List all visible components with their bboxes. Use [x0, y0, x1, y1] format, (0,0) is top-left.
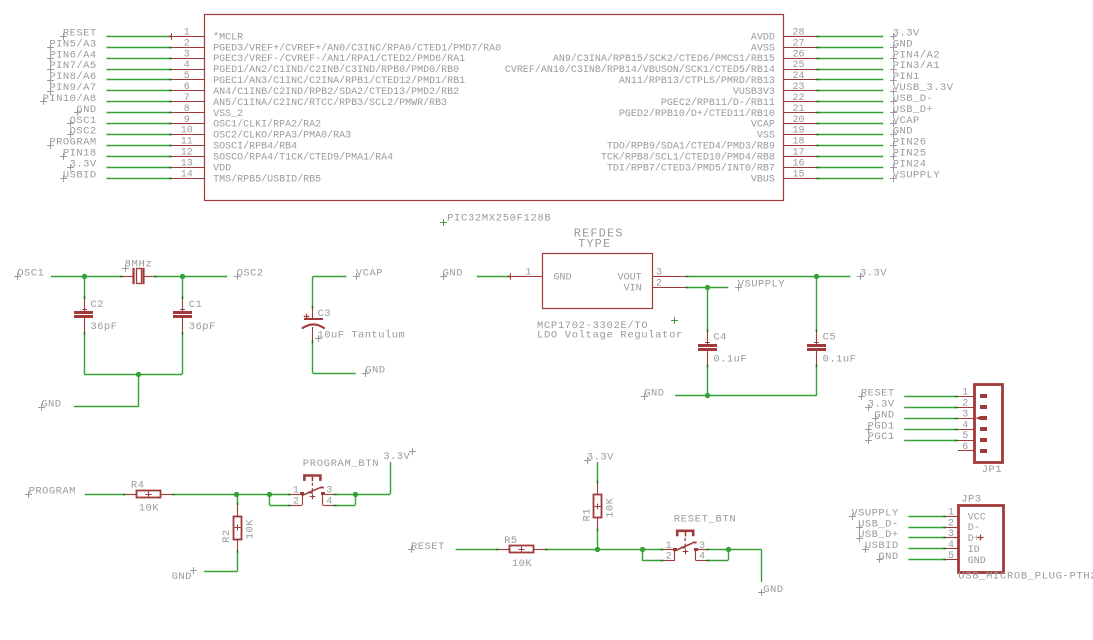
- svg-text:GND: GND: [968, 556, 986, 567]
- svg-text:C5: C5: [823, 332, 837, 344]
- regulator U2 pin 2 VIN: [653, 287, 686, 289]
- svg-text:LDO Voltage Regulator: LDO Voltage Regulator: [537, 329, 683, 341]
- ground GND label (C3): [362, 370, 369, 377]
- U1 pin 4 (PGED1/AN2/C1IND/C2INB/C3IND/RPB0/PMD0/RB0): [172, 69, 205, 71]
- svg-text:AN4/C1INB/C2IND/RPB2/SDA2/CTED: AN4/C1INB/C2IND/RPB2/SDA2/CTED13/PMD2/RB…: [213, 86, 459, 98]
- node VCAP label: [890, 120, 897, 127]
- svg-text:3: 3: [948, 529, 954, 540]
- wire net USB_D+ to JP3 pin 3: [908, 537, 946, 539]
- wire gnd branch down-left: [138, 374, 140, 407]
- svg-text:26: 26: [792, 49, 804, 60]
- U1 pin 17 (TCK/RPB8/SCL1/CTED10/PMD4/RB8): [783, 156, 816, 158]
- node GND label (JP3): [876, 556, 883, 563]
- U1 pin 2 (PGED3/VREF+/CVREF+/AN0/C3INC/RPA0/CTED1/PMD7/RA0): [172, 47, 205, 49]
- svg-text:AVDD: AVDD: [751, 32, 775, 43]
- svg-text:OSC2: OSC2: [237, 268, 264, 280]
- capacitor C3 value: [315, 335, 322, 342]
- wire net USB_D- to U1 pin 22: [816, 101, 883, 103]
- svg-text:36pF: 36pF: [189, 321, 216, 333]
- wire R1 down to junction: [597, 529, 599, 550]
- junction PROGRAM/R2: [234, 492, 239, 497]
- wire net USB_D+ to U1 pin 21: [816, 112, 883, 114]
- U1 pin 11 (SOSCI/RPB4/RB4): [172, 145, 205, 147]
- svg-text:1: 1: [962, 387, 968, 398]
- svg-text:RESET: RESET: [411, 541, 445, 553]
- svg-text:TMS/RPB5/USBID/RB5: TMS/RPB5/USBID/RB5: [213, 173, 321, 185]
- svg-text:VSUPPLY: VSUPPLY: [893, 169, 941, 181]
- connector JP3 D+ origin cross: [978, 535, 984, 541]
- svg-text:TCK/RPB8/SCL1/CTED10/PMD4/RB8: TCK/RPB8/SCL1/CTED10/PMD4/RB8: [601, 151, 775, 163]
- svg-text:PROGRAM: PROGRAM: [29, 486, 76, 498]
- U1 pin 18 (TDO/RPB9/SDA1/CTED4/PMD3/RB9): [783, 145, 816, 147]
- svg-text:10K: 10K: [512, 558, 533, 570]
- svg-text:17: 17: [792, 148, 804, 159]
- regulator U2 pin 1 GND: [510, 276, 542, 278]
- svg-text:R5: R5: [504, 535, 518, 547]
- U1 pin 26 (AN9/C3INA/RPB15/SCK2/CTED6/PMCS1/RB15): [783, 58, 816, 60]
- svg-text:10: 10: [181, 126, 193, 137]
- wire GND to regulator pin 1: [477, 276, 510, 278]
- wire net GND to U1 pin 8: [106, 112, 171, 114]
- svg-text:C4: C4: [713, 332, 727, 344]
- svg-text:20: 20: [792, 115, 804, 126]
- svg-text:TDI/RPB7/CTED3/PMD5/INT0/RB7: TDI/RPB7/CTED3/PMD5/INT0/RB7: [607, 162, 775, 174]
- crystal Q1 8MHz: [123, 276, 134, 278]
- switch RESET_BTN pin 3: [696, 549, 707, 551]
- wire R5 to junction: [545, 549, 641, 551]
- node VSUPPLY label: [890, 175, 897, 182]
- svg-text:VDD: VDD: [213, 163, 231, 174]
- svg-text:10uF Tantulum: 10uF Tantulum: [318, 330, 406, 342]
- svg-text:PGED1/AN2/C1IND/C2INB/C3IND/RP: PGED1/AN2/C1IND/C2INB/C3IND/RPB0/PMD0/RB…: [213, 64, 459, 76]
- wire PROGRAM_BTN pin2 loop: [269, 494, 290, 496]
- svg-text:VCAP: VCAP: [356, 268, 383, 280]
- wire net USBID to U1 pin 14: [106, 178, 171, 180]
- wire gnd rail under crystal caps: [84, 374, 182, 376]
- switch PROGRAM_BTN pin 4: [323, 505, 334, 507]
- svg-text:JP3: JP3: [961, 494, 981, 506]
- svg-text:21: 21: [792, 104, 804, 115]
- op-amp U1 PIC32MX250F128B body: [205, 15, 784, 201]
- wire btn right to 3.3V riser: [355, 494, 390, 496]
- svg-text:5: 5: [962, 431, 968, 442]
- svg-text:R1: R1: [581, 508, 593, 522]
- junction VOUT/C5: [814, 274, 819, 279]
- svg-text:10K: 10K: [605, 497, 617, 518]
- svg-text:CVREF/AN10/C3INB/RPB14/VBUSON/: CVREF/AN10/C3INB/RPB14/VBUSON/SCK1/CTED5…: [505, 64, 775, 76]
- connector JP3 pin 4 (ID): [946, 548, 958, 550]
- svg-text:AN11/RPB13/CTPLS/PMRD/RB13: AN11/RPB13/CTPLS/PMRD/RB13: [619, 75, 775, 87]
- svg-text:PIC32MX250F128B: PIC32MX250F128B: [447, 213, 551, 225]
- wire net VCAP to U1 pin 20: [816, 123, 883, 125]
- wire RESET_BTN pin2 loop: [642, 549, 663, 551]
- svg-text:TDO/RPB9/SDA1/CTED4/PMD3/RB9: TDO/RPB9/SDA1/CTED4/PMD3/RB9: [607, 141, 775, 153]
- node 3.3V label: [890, 33, 897, 40]
- svg-text:16: 16: [792, 158, 804, 169]
- connector JP3 pin 1 (VCC): [946, 516, 958, 518]
- wire net OSC1 to U1 pin 9: [106, 123, 171, 125]
- U1 pin 19 (VSS): [783, 134, 816, 136]
- svg-text:VCAP: VCAP: [751, 120, 775, 131]
- ground GND label (crystal): [38, 404, 45, 411]
- node OSC1 label: [67, 120, 74, 127]
- svg-text:3.3V: 3.3V: [383, 451, 410, 463]
- svg-text:PGEC2/RPB11/D-/RB11: PGEC2/RPB11/D-/RB11: [661, 97, 775, 109]
- svg-text:PGEC3/VREF-/CVREF-/AN1/RPA1/CT: PGEC3/VREF-/CVREF-/AN1/RPA1/CTED2/PMD6/R…: [213, 53, 465, 65]
- wire C4 down to gnd rail: [707, 365, 709, 396]
- U1 pin 24 (AN11/RPB13/CTPLS/PMRD/RB13): [783, 79, 816, 81]
- U1 pin 6 (AN4/C1INB/C2IND/RPB2/SDA2/CTED13/PMD2/RB2): [172, 90, 205, 92]
- op-amp U2 MCP1702 body: [543, 254, 653, 309]
- node 3.3V label (R1): [584, 457, 591, 464]
- svg-text:2: 2: [962, 398, 968, 409]
- capacitor C1 36pF: [173, 311, 192, 314]
- wire net GND to U1 pin 27: [816, 47, 883, 49]
- wire net VSUPPLY to U1 pin 15: [816, 178, 883, 180]
- svg-text:0.1uF: 0.1uF: [823, 354, 857, 366]
- wire net PIN7/A5 to U1 pin 4: [106, 69, 171, 71]
- svg-text:36pF: 36pF: [90, 321, 117, 333]
- connector JP1 pin 2: [958, 407, 974, 409]
- svg-text:2: 2: [293, 496, 299, 507]
- svg-text:VUSB3V3: VUSB3V3: [733, 87, 775, 98]
- connector JP3 pin 2 (D-): [946, 527, 958, 529]
- U1 pin 13 (VDD): [172, 167, 205, 169]
- U1 pin 16 (TDI/RPB7/CTED3/PMD5/INT0/RB7): [783, 167, 816, 169]
- svg-text:PROGRAM_BTN: PROGRAM_BTN: [303, 458, 379, 470]
- wire OSC2 down to C1: [182, 276, 184, 299]
- U1 pin 8 (VSS_2): [172, 112, 205, 114]
- U1 pin 15 (VBUS): [783, 178, 816, 180]
- connector JP1 pin 1: [958, 396, 974, 398]
- svg-text:11: 11: [181, 137, 193, 148]
- U1 pin 28 (AVDD): [783, 36, 816, 38]
- node RESET label: [408, 546, 415, 553]
- wire R2 down to GND: [237, 550, 239, 572]
- wire net 3.3V to JP1 pin 2: [904, 407, 958, 409]
- svg-text:USBID: USBID: [63, 169, 97, 181]
- U1 pin 20 (VCAP): [783, 123, 816, 125]
- switch PROGRAM_BTN pin 1: [291, 494, 303, 496]
- node PIN6/A4 label: [47, 55, 54, 62]
- connector JP1 pin 4: [958, 429, 974, 431]
- svg-text:27: 27: [792, 38, 804, 49]
- svg-text:R4: R4: [131, 480, 145, 492]
- wire net 3.3V to U1 pin 28: [816, 36, 883, 38]
- node GND label: [890, 44, 897, 51]
- wire net PIN6/A4 to U1 pin 3: [106, 58, 171, 60]
- wire crystal to OSC2/C1: [154, 276, 227, 278]
- node VCAP label: [353, 273, 360, 280]
- node PGC1 label (JP1): [865, 437, 872, 444]
- wire RESET to R5: [456, 549, 499, 551]
- svg-text:C2: C2: [90, 299, 104, 311]
- node PIN4/A2 label: [890, 55, 897, 62]
- node USB_D+ label: [890, 109, 897, 116]
- connector JP1 pin 3: [958, 418, 974, 420]
- U1 pin 22 (PGEC2/RPB11/D-/RB11): [783, 101, 816, 103]
- svg-text:6: 6: [962, 442, 968, 453]
- wire net GND to U1 pin 19: [816, 134, 883, 136]
- node GND label: [74, 109, 81, 116]
- U1 pin 21 (PGED2/RPB10/D+/CTED11/RB10): [783, 112, 816, 114]
- wire net GND to JP3 pin 5: [908, 559, 946, 561]
- svg-text:RESET_BTN: RESET_BTN: [674, 513, 737, 525]
- node PIN5/A3 label: [47, 44, 54, 51]
- regulator U2 origin cross: [671, 317, 678, 324]
- switch RESET_BTN: [677, 531, 693, 536]
- U1 pin 25 (CVREF/AN10/C3INB/RPB14/VBUSON/SCK1/CTED5/RB14): [783, 69, 816, 71]
- resistor R5 10K: [499, 549, 510, 551]
- svg-text:4: 4: [326, 496, 332, 507]
- svg-text:1: 1: [525, 267, 531, 278]
- wire net PIN18 to U1 pin 12: [106, 156, 171, 158]
- node PGD1 label (JP1): [865, 426, 872, 433]
- wire PROGRAM to R4: [85, 494, 126, 496]
- capacitor C3 polarized 10uF Tantulum: [312, 309, 314, 320]
- svg-text:15: 15: [792, 169, 804, 180]
- wire net PIN3/A1 to U1 pin 25: [816, 69, 883, 71]
- svg-text:0.1uF: 0.1uF: [713, 354, 747, 366]
- svg-text:2: 2: [666, 552, 672, 563]
- node RESET label (JP1): [858, 393, 865, 400]
- node VSUPPLY label (VIN): [735, 284, 742, 291]
- U1 pin 12 (SOSCO/RPA4/T1CK/CTED9/PMA1/RA4): [172, 156, 205, 158]
- svg-text:VSS: VSS: [757, 131, 775, 142]
- wire C3 to GND: [312, 341, 314, 374]
- U1 value PIC32MX250F128B: [440, 219, 447, 226]
- svg-text:VIN: VIN: [624, 283, 642, 294]
- svg-text:3: 3: [962, 409, 968, 420]
- node USB_D+ label (JP3): [856, 535, 863, 542]
- wire net OSC2 to U1 pin 10: [106, 134, 171, 136]
- switch PROGRAM_BTN pin 2: [291, 505, 303, 507]
- svg-text:OSC1: OSC1: [17, 268, 44, 280]
- svg-text:5: 5: [948, 551, 954, 562]
- svg-text:4: 4: [699, 552, 705, 563]
- junction RESET_BTN left: [640, 547, 645, 552]
- U1 pin 1 connection cross: [168, 33, 174, 39]
- svg-text:10K: 10K: [139, 503, 160, 515]
- svg-text:18: 18: [792, 137, 804, 148]
- resistor R2 10K: [237, 505, 239, 516]
- svg-text:5: 5: [184, 71, 190, 82]
- switch PROGRAM_BTN: [304, 476, 320, 481]
- wire net VSUPPLY to JP3 pin 1: [908, 516, 946, 518]
- svg-text:PGED2/RPB10/D+/CTED11/RB10: PGED2/RPB10/D+/CTED11/RB10: [619, 108, 775, 120]
- svg-text:1: 1: [948, 507, 954, 518]
- node GND label: [890, 131, 897, 138]
- svg-text:GND: GND: [443, 268, 463, 280]
- wire C1 down to gnd rail: [182, 332, 184, 374]
- svg-text:19: 19: [792, 126, 804, 137]
- svg-text:GND: GND: [365, 365, 385, 377]
- svg-text:OSC1/CLKI/RPA2/RA2: OSC1/CLKI/RPA2/RA2: [213, 119, 321, 131]
- node PIN10/A8 label: [40, 98, 47, 105]
- node 3.3V label: [67, 164, 74, 171]
- node 3.3V label (program): [409, 448, 416, 455]
- U1 pin 14 (TMS/RPB5/USBID/RB5): [172, 178, 205, 180]
- svg-text:12: 12: [181, 148, 193, 159]
- wire btn right to GND drop: [728, 549, 761, 551]
- svg-text:GND: GND: [878, 551, 898, 563]
- connector JP1 pin 6: [958, 450, 974, 452]
- node VSUPPLY label (JP3): [849, 513, 856, 520]
- node PROGRAM label: [47, 142, 54, 149]
- U1 pin 23 (VUSB3V3): [783, 90, 816, 92]
- regulator U2 pin 3 VOUT: [653, 276, 686, 278]
- svg-text:VCC: VCC: [968, 512, 986, 523]
- svg-text:3: 3: [326, 486, 332, 497]
- node PIN18 label: [60, 153, 67, 160]
- svg-text:ID: ID: [968, 545, 980, 556]
- wire 3.3V down to R1: [597, 462, 599, 484]
- wire OSC1 down to C2: [84, 276, 86, 299]
- node OSC1 label: [14, 273, 21, 280]
- svg-text:25: 25: [792, 60, 804, 71]
- svg-text:JP1: JP1: [982, 464, 1002, 476]
- svg-text:GND: GND: [763, 584, 783, 596]
- svg-text:*MCLR: *MCLR: [213, 31, 243, 43]
- junction C2/crystal: [82, 274, 87, 279]
- svg-text:10K: 10K: [244, 519, 256, 540]
- wire VIN to VSUPPLY: [686, 287, 729, 289]
- svg-text:3: 3: [184, 49, 190, 60]
- wire net 3.3V to U1 pin 13: [106, 167, 171, 169]
- svg-text:USB_MICROB_PLUG-PTH2: USB_MICROB_PLUG-PTH2: [958, 570, 1093, 582]
- node USBID label (JP3): [862, 546, 869, 553]
- wire net PIN8/A6 to U1 pin 5: [106, 79, 171, 81]
- crystal value 8MHz: [122, 265, 129, 272]
- svg-text:D-: D-: [968, 523, 980, 534]
- svg-text:OSC2/CLKO/RPA3/PMA0/RA3: OSC2/CLKO/RPA3/PMA0/RA3: [213, 130, 351, 142]
- svg-text:VOUT: VOUT: [618, 272, 642, 283]
- wire R4 to junction: [172, 494, 273, 496]
- svg-text:7: 7: [184, 93, 190, 104]
- node USBID label: [60, 175, 67, 182]
- junction gnd rail C4: [705, 393, 710, 398]
- node PIN3/A1 label: [890, 66, 897, 73]
- svg-text:1: 1: [184, 27, 190, 38]
- switch RESET_BTN pin 1: [663, 549, 675, 551]
- node 3.3V label (JP1): [865, 404, 872, 411]
- junction PROGRAM_BTN right: [353, 492, 358, 497]
- wire net PIN9/A7 to U1 pin 6: [106, 90, 171, 92]
- capacitor C2 36pF: [74, 311, 93, 314]
- svg-text:GND: GND: [554, 272, 572, 283]
- svg-text:2: 2: [948, 518, 954, 529]
- node GND label (regulator input): [440, 273, 447, 280]
- connector JP3 pin 3 (D+): [946, 537, 958, 539]
- wire net USBID to JP3 pin 4: [908, 548, 946, 550]
- junction PROGRAM_BTN left: [267, 492, 272, 497]
- wire net PIN26 to U1 pin 18: [816, 145, 883, 147]
- wire net PIN4/A2 to U1 pin 26: [816, 58, 883, 60]
- svg-text:C3: C3: [318, 308, 332, 320]
- capacitor C4 0.1uF: [698, 344, 717, 347]
- svg-text:VBUS: VBUS: [751, 174, 775, 185]
- ground GND label (reset btn): [758, 589, 765, 596]
- wire net RESET to U1 pin 1: [106, 36, 171, 38]
- junction VIN/C4: [705, 285, 710, 290]
- svg-text:1: 1: [293, 486, 299, 497]
- wire VCAP down to C3: [312, 276, 314, 308]
- capacitor C5 0.1uF: [807, 344, 826, 347]
- U1 pin 3 (PGEC3/VREF-/CVREF-/AN1/RPA1/CTED2/PMD6/RA1): [172, 58, 205, 60]
- svg-text:PGEC1/AN3/C1INC/C2INA/RPB1/CTE: PGEC1/AN3/C1INC/C2INA/RPB1/CTED12/PMD1/R…: [213, 75, 465, 87]
- junction C1/crystal: [180, 274, 185, 279]
- ground GND label (R2): [190, 567, 197, 574]
- wire net PIN25 to U1 pin 17: [816, 156, 883, 158]
- junction RESET_BTN right: [726, 547, 731, 552]
- wire VOUT to 3.3V: [686, 276, 851, 278]
- svg-text:4: 4: [184, 60, 190, 71]
- U1 pin 9 (OSC1/CLKI/RPA2/RA2): [172, 123, 205, 125]
- node PROGRAM label: [25, 491, 32, 498]
- wire net PIN1 to U1 pin 24: [816, 79, 883, 81]
- wire gnd rail under C4 C5: [675, 395, 816, 397]
- svg-text:23: 23: [792, 82, 804, 93]
- svg-text:3.3V: 3.3V: [860, 268, 887, 280]
- wire C5 down to gnd rail: [816, 365, 818, 396]
- U1 pin 27 (AVSS): [783, 47, 816, 49]
- svg-text:GND: GND: [172, 571, 192, 583]
- svg-text:8: 8: [184, 104, 190, 115]
- svg-text:SOSCI/RPB4/RB4: SOSCI/RPB4/RB4: [213, 141, 297, 153]
- switch PROGRAM_BTN pin 3: [323, 494, 334, 496]
- svg-text:2: 2: [184, 38, 190, 49]
- svg-text:GND: GND: [644, 387, 664, 399]
- wire net PIN10/A8 to U1 pin 7: [106, 101, 171, 103]
- wire net RESET to JP1 pin 1: [904, 396, 958, 398]
- svg-text:VSUPPLY: VSUPPLY: [738, 279, 786, 291]
- wire PROGRAM_BTN pin4 loop: [334, 494, 356, 496]
- connector JP3 body: [959, 506, 1004, 573]
- U1 pin 5 (PGEC1/AN3/C1INC/C2INA/RPB1/CTED12/PMD1/RB1): [172, 79, 205, 81]
- svg-text:PGC1: PGC1: [868, 431, 895, 443]
- wire net PGC1 to JP1 pin 5: [904, 440, 958, 442]
- svg-text:3.3V: 3.3V: [587, 451, 614, 463]
- svg-text:PGED3/VREF+/CVREF+/AN0/C3INC/R: PGED3/VREF+/CVREF+/AN0/C3INC/RPA0/CTED1/…: [213, 42, 501, 54]
- connector JP1 body: [975, 385, 1003, 463]
- svg-text:VSS_2: VSS_2: [213, 109, 243, 120]
- svg-text:C1: C1: [189, 299, 203, 311]
- wire net PIN24 to U1 pin 16: [816, 167, 883, 169]
- svg-text:9: 9: [184, 115, 190, 126]
- wire net PROGRAM to U1 pin 11: [106, 145, 171, 147]
- wire net PGD1 to JP1 pin 4: [904, 429, 958, 431]
- svg-text:D+: D+: [968, 534, 980, 545]
- svg-text:AVSS: AVSS: [751, 43, 775, 54]
- node PIN25 label: [890, 153, 897, 160]
- resistor R4 10K: [126, 494, 137, 496]
- switch RESET_BTN pin 2: [663, 560, 675, 562]
- node PIN8/A6 label: [47, 77, 54, 84]
- U1 pin 1 (*MCLR): [172, 36, 205, 38]
- wire C2 down to gnd rail: [84, 332, 86, 374]
- node VUSB_3.3V label: [890, 88, 897, 95]
- switch RESET_BTN pin 4: [696, 560, 707, 562]
- svg-text:2: 2: [656, 278, 662, 289]
- wire net VUSB_3.3V to U1 pin 23: [816, 90, 883, 92]
- U1 pin 10 (OSC2/CLKO/RPA3/PMA0/RA3): [172, 134, 205, 136]
- svg-text:3: 3: [656, 267, 662, 278]
- U1 pin 7 (AN5/C1INA/C2INC/RTCC/RPB3/SCL2/PMWR/RB3): [172, 101, 205, 103]
- svg-text:R2: R2: [221, 529, 233, 543]
- node PIN9/A7 label: [47, 88, 54, 95]
- node OSC2 label: [234, 273, 241, 280]
- svg-text:1: 1: [666, 541, 672, 552]
